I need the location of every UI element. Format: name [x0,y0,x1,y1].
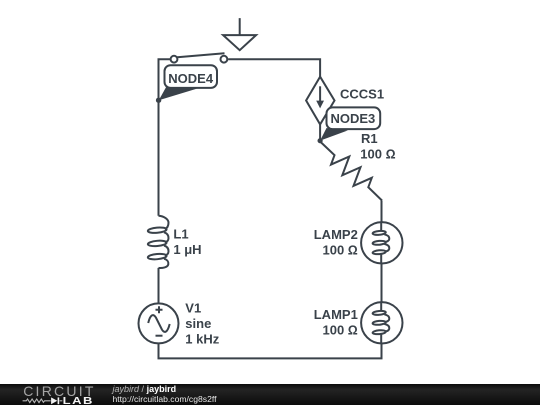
svg-text:100 Ω: 100 Ω [323,322,358,337]
svg-text:V1: V1 [185,301,201,316]
svg-text:1 kHz: 1 kHz [185,332,219,347]
svg-text:sine: sine [185,316,211,331]
svg-text:100 Ω: 100 Ω [323,242,358,257]
svg-text:R1: R1 [361,131,378,146]
svg-text:LAMP2: LAMP2 [314,227,358,242]
svg-text:CCCS1: CCCS1 [340,86,384,101]
svg-text:LAMP1: LAMP1 [314,307,358,322]
svg-text:L1: L1 [173,226,188,241]
svg-text:NODE3: NODE3 [331,111,376,126]
svg-text:1 μH: 1 μH [173,242,201,257]
svg-text:NODE4: NODE4 [168,71,214,86]
svg-text:100 Ω: 100 Ω [360,146,395,161]
